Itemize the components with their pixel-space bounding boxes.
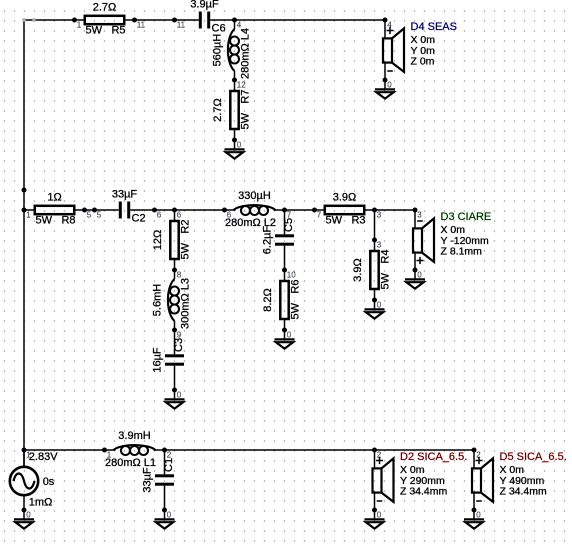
svg-text:0: 0 [476, 511, 481, 520]
capacitor C5 [262, 210, 296, 270]
svg-text:5.6mH: 5.6mH [152, 284, 164, 316]
node 7 [282, 208, 292, 220]
svg-text:6: 6 [177, 211, 182, 220]
svg-text:R2: R2 [180, 220, 192, 234]
svg-text:R3: R3 [351, 215, 365, 227]
svg-text:Z 8.1mm: Z 8.1mm [441, 246, 483, 258]
svg-text:C6: C6 [212, 23, 226, 35]
svg-text:1mΩ: 1mΩ [29, 497, 53, 509]
ground [375, 80, 395, 99]
svg-text:5W: 5W [290, 302, 302, 319]
svg-text:C5: C5 [283, 218, 295, 232]
capacitor C6 [175, 0, 235, 34]
svg-text:280mΩ L4: 280mΩ L4 [240, 28, 252, 79]
node 4 [232, 18, 242, 30]
resistor R4 [352, 240, 392, 300]
svg-text:0: 0 [26, 511, 31, 520]
node 0 [372, 508, 382, 520]
svg-text:33µF: 33µF [112, 189, 138, 201]
ground [464, 510, 484, 529]
node 6 [152, 208, 162, 220]
capacitor C3 [152, 330, 186, 390]
wire left bus [23, 20, 25, 450]
svg-text:2.7Ω: 2.7Ω [93, 2, 117, 14]
svg-text:10: 10 [287, 271, 296, 280]
svg-text:330µH: 330µH [238, 190, 271, 202]
svg-text:Z 0m: Z 0m [411, 56, 435, 68]
resistor R3 [315, 192, 375, 227]
svg-text:R8: R8 [61, 215, 75, 227]
svg-text:0: 0 [287, 331, 292, 340]
wire [24, 19, 75, 21]
svg-text:1: 1 [77, 21, 82, 30]
node 3 [372, 208, 382, 220]
node 4 [383, 18, 393, 30]
label D3 CIARE [441, 211, 492, 258]
svg-text:0: 0 [377, 511, 382, 520]
svg-text:33µF: 33µF [142, 467, 154, 493]
wire [235, 19, 386, 21]
node 1 [22, 208, 32, 220]
capacitor C1 [142, 450, 176, 510]
svg-text:D4 SEAS: D4 SEAS [411, 21, 457, 33]
svg-text:5W: 5W [380, 272, 392, 289]
svg-text:8.2Ω: 8.2Ω [262, 288, 274, 312]
node 3 [413, 208, 423, 220]
svg-text:6: 6 [157, 211, 162, 220]
wire [165, 449, 375, 451]
svg-text:3.9Ω: 3.9Ω [352, 258, 364, 282]
node 6 [222, 208, 232, 220]
wire [374, 210, 376, 240]
svg-text:R6: R6 [290, 280, 302, 294]
resistor R5 [75, 2, 135, 37]
speaker D3 [413, 210, 434, 270]
node 12 [232, 78, 246, 90]
svg-text:C3: C3 [173, 338, 185, 352]
voltage source V1 [10, 450, 58, 510]
junction [22, 188, 27, 193]
svg-text:Z 34.4mm: Z 34.4mm [500, 486, 548, 498]
node 5 [82, 208, 92, 220]
svg-text:3.9mH: 3.9mH [118, 430, 150, 442]
svg-text:5: 5 [87, 211, 92, 220]
svg-text:R7: R7 [240, 90, 252, 104]
node 0 [282, 328, 292, 340]
svg-text:C2: C2 [132, 213, 146, 225]
node 11 [172, 18, 186, 30]
ground [14, 510, 34, 529]
ground [365, 300, 385, 319]
node 2 [372, 448, 382, 460]
svg-text:11: 11 [137, 21, 146, 30]
ground [275, 330, 295, 349]
svg-text:2.83V: 2.83V [29, 451, 58, 463]
svg-text:6: 6 [227, 211, 232, 220]
speaker D4 [383, 20, 404, 80]
svg-text:3.9Ω: 3.9Ω [333, 192, 357, 204]
svg-text:0: 0 [417, 271, 422, 280]
node 9 [172, 328, 182, 340]
svg-text:R4: R4 [380, 250, 392, 264]
node 0 [162, 508, 172, 520]
svg-text:1: 1 [107, 451, 112, 460]
svg-text:D3 CIARE: D3 CIARE [441, 211, 492, 223]
ground [165, 390, 185, 409]
node 2 [162, 448, 172, 460]
label D4 SEAS [411, 21, 457, 68]
wire [135, 19, 175, 21]
wire [155, 209, 175, 211]
svg-text:0: 0 [167, 511, 172, 520]
inductor L2 [225, 190, 285, 229]
svg-text:0: 0 [377, 301, 382, 310]
node 6 [172, 208, 182, 220]
wire [375, 209, 416, 211]
wire [175, 209, 225, 211]
svg-text:12Ω: 12Ω [152, 230, 164, 250]
wire [24, 449, 105, 451]
node 1 [22, 448, 32, 460]
node 0 [413, 268, 423, 280]
svg-text:D2 SICA_6.5.: D2 SICA_6.5. [400, 451, 467, 463]
svg-text:11: 11 [177, 21, 186, 30]
node 11 [132, 18, 146, 30]
inductor L3 [152, 270, 192, 330]
svg-text:0: 0 [387, 81, 392, 90]
node 0 [372, 298, 382, 310]
node 7 [312, 208, 322, 220]
svg-text:Z 34.4mm: Z 34.4mm [400, 486, 448, 498]
resistor R6 [262, 270, 302, 330]
svg-text:1Ω: 1Ω [47, 192, 61, 204]
node 1 [102, 448, 112, 460]
node 0 [232, 138, 242, 150]
svg-text:12: 12 [237, 81, 246, 90]
resistor R7 [212, 80, 252, 140]
svg-text:5W: 5W [180, 242, 192, 259]
svg-text:D5 SICA_6.5.: D5 SICA_6.5. [500, 451, 567, 463]
node 0 [472, 508, 482, 520]
node 10 [282, 268, 296, 280]
svg-text:5W: 5W [86, 25, 103, 37]
node 5 [92, 208, 102, 220]
ground [155, 510, 175, 529]
svg-text:C1: C1 [163, 458, 175, 472]
resistor R8 [25, 192, 85, 227]
speaker D2 [373, 450, 394, 510]
svg-text:3: 3 [377, 211, 382, 220]
svg-text:5W: 5W [326, 215, 343, 227]
wire [375, 449, 475, 451]
svg-text:6.2µF: 6.2µF [262, 226, 274, 255]
wire [23, 450, 25, 466]
wire [85, 209, 95, 211]
svg-text:5W: 5W [240, 112, 252, 129]
node 8 [172, 268, 182, 280]
svg-text:0: 0 [177, 391, 182, 400]
ground [225, 140, 245, 159]
node 1 [72, 18, 82, 30]
svg-text:1: 1 [26, 211, 31, 220]
ground [405, 270, 425, 289]
svg-text:2.7Ω: 2.7Ω [212, 98, 224, 122]
svg-text:16µF: 16µF [152, 347, 164, 373]
svg-text:7: 7 [317, 211, 322, 220]
label D2 SICA_6.5. [400, 451, 467, 498]
svg-text:R5: R5 [111, 25, 125, 37]
label D5 SICA_6.5. [500, 451, 567, 498]
wire [285, 209, 315, 211]
capacitor C2 [95, 189, 155, 225]
speaker D5 [472, 450, 493, 510]
node 0 [22, 508, 32, 520]
node 0 [383, 78, 393, 90]
node 3 [372, 238, 382, 250]
svg-text:3: 3 [377, 241, 382, 250]
inductor L1 [105, 430, 165, 469]
svg-text:0s: 0s [43, 476, 55, 488]
node 2 [472, 448, 482, 460]
svg-text:0: 0 [237, 141, 242, 150]
svg-text:3.9µF: 3.9µF [190, 0, 219, 11]
inductor L4 [212, 20, 252, 80]
svg-text:5: 5 [97, 211, 102, 220]
wire handle [22, 18, 35, 21]
ground [365, 510, 385, 529]
svg-text:3: 3 [417, 211, 422, 220]
svg-text:280mΩ L1: 280mΩ L1 [105, 457, 156, 469]
svg-text:560µH: 560µH [212, 34, 224, 67]
svg-text:5W: 5W [36, 215, 53, 227]
resistor R2 [152, 210, 192, 270]
svg-text:300mΩ L3: 300mΩ L3 [180, 278, 192, 329]
node 0 [172, 388, 182, 400]
